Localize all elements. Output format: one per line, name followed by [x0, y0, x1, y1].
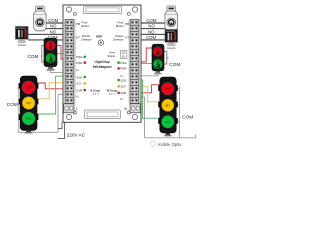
svg-text:COM: COM: [28, 54, 39, 59]
svg-text:COM: COM: [48, 35, 58, 40]
svg-text:NO: NO: [148, 24, 155, 29]
svg-text:mobile Optix: mobile Optix: [158, 142, 182, 147]
svg-text:DT: DT: [76, 36, 80, 40]
svg-text:PB: PB: [125, 22, 129, 26]
svg-text:WIFI: WIFI: [96, 34, 102, 38]
svg-text:12V: 12V: [121, 52, 126, 55]
svg-text:COM: COM: [169, 62, 180, 67]
svg-text:S1R: S1R: [76, 88, 83, 92]
svg-text:Vehicle: Vehicle: [82, 34, 91, 38]
svg-text:NO: NO: [50, 29, 57, 34]
svg-text:PB: PB: [76, 22, 80, 26]
svg-text:Button: Button: [82, 24, 90, 28]
svg-text:N Group: N Group: [91, 89, 101, 93]
svg-text:N: N: [76, 68, 78, 72]
svg-text:PSG: PSG: [76, 55, 83, 59]
svg-text:COM: COM: [146, 18, 156, 23]
svg-text:PSR: PSR: [120, 67, 127, 71]
svg-text:S2R: S2R: [120, 91, 127, 95]
svg-text:PSG: PSG: [120, 61, 127, 65]
svg-text:4 Signal Group: 4 Signal Group: [94, 60, 109, 64]
svg-text:Signal: Signal: [108, 54, 116, 58]
svg-text:Button: Button: [116, 24, 124, 28]
svg-text:S1G: S1G: [26, 117, 31, 121]
svg-text:W Group: W Group: [107, 89, 118, 93]
svg-text:Count: Count: [167, 46, 175, 50]
svg-text:S2G: S2G: [120, 78, 127, 82]
svg-text:Detector: Detector: [82, 38, 92, 42]
svg-text:N: N: [76, 94, 78, 98]
svg-text:S1G: S1G: [76, 75, 83, 79]
svg-text:S1Y: S1Y: [165, 103, 170, 107]
svg-text:Traffic Management: Traffic Management: [93, 65, 113, 69]
svg-text:N: N: [120, 74, 122, 78]
svg-text:Push: Push: [82, 21, 89, 25]
svg-text:S1Y: S1Y: [26, 101, 31, 105]
svg-text:COM: COM: [146, 35, 156, 40]
svg-text:COM: COM: [182, 115, 193, 120]
svg-text:S1G: S1G: [165, 120, 170, 124]
svg-text:5V: 5V: [122, 55, 125, 58]
svg-text:Vehicle: Vehicle: [115, 34, 124, 38]
svg-text:220V AC: 220V AC: [67, 133, 86, 138]
svg-text:S2Y: S2Y: [120, 85, 126, 89]
svg-text:PSR: PSR: [76, 61, 83, 65]
svg-text:S1Y: S1Y: [76, 82, 82, 86]
svg-text:Over: Over: [109, 51, 115, 55]
svg-text:S1R: S1R: [26, 86, 31, 90]
svg-text:N: N: [124, 107, 127, 111]
svg-text:L: L: [76, 107, 78, 111]
svg-text:Count: Count: [18, 43, 26, 47]
svg-text:Push: Push: [117, 21, 124, 25]
svg-text:NO: NO: [50, 24, 57, 29]
svg-text:S1R: S1R: [165, 87, 170, 91]
svg-text:COM: COM: [48, 18, 58, 23]
svg-text:COM: COM: [7, 102, 18, 107]
svg-text:N: N: [120, 97, 122, 101]
svg-text:DT: DT: [125, 36, 129, 40]
svg-text:Detector: Detector: [113, 38, 123, 42]
svg-text:NO: NO: [148, 29, 155, 34]
